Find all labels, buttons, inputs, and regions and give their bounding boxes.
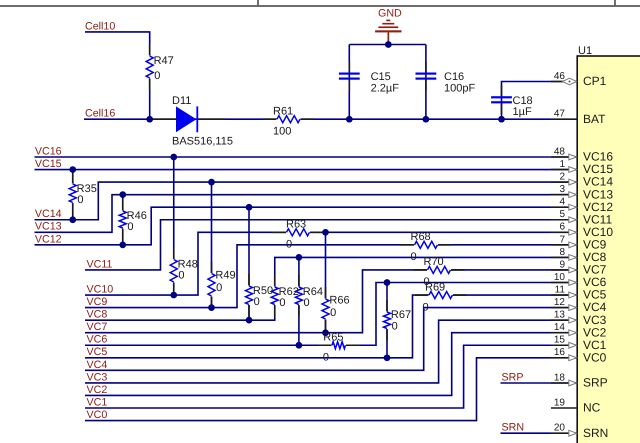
svg-text:VC1: VC1	[87, 396, 108, 408]
svg-text:0: 0	[254, 296, 260, 308]
svg-text:47: 47	[554, 109, 566, 120]
svg-text:R49: R49	[215, 270, 235, 282]
svg-text:Cell10: Cell10	[85, 20, 115, 32]
svg-text:1: 1	[559, 159, 565, 170]
svg-text:15: 15	[554, 335, 566, 346]
svg-text:VC14: VC14	[35, 208, 62, 220]
svg-text:0: 0	[330, 307, 336, 319]
svg-text:VC3: VC3	[87, 371, 108, 383]
svg-text:VC4: VC4	[87, 359, 108, 371]
svg-text:SRP: SRP	[502, 371, 524, 383]
svg-text:SRN: SRN	[583, 426, 608, 440]
svg-text:BAT: BAT	[583, 112, 606, 126]
svg-text:VC7: VC7	[87, 321, 108, 333]
svg-text:16: 16	[554, 347, 566, 358]
svg-text:13: 13	[554, 310, 566, 321]
svg-text:14: 14	[554, 322, 566, 333]
svg-text:VC0: VC0	[87, 409, 108, 421]
svg-text:0: 0	[279, 297, 285, 309]
svg-text:R68: R68	[411, 231, 431, 243]
svg-text:1µF: 1µF	[513, 106, 532, 118]
svg-text:C18: C18	[513, 95, 533, 107]
svg-text:10: 10	[554, 272, 566, 283]
svg-text:8: 8	[559, 247, 565, 258]
svg-text:SRP: SRP	[583, 376, 608, 390]
svg-text:12: 12	[554, 297, 566, 308]
svg-text:0: 0	[77, 194, 83, 206]
svg-text:0: 0	[392, 321, 398, 333]
svg-text:U1: U1	[578, 45, 592, 57]
svg-text:VC15: VC15	[35, 158, 62, 170]
svg-text:9: 9	[559, 259, 565, 270]
svg-text:0: 0	[304, 297, 310, 309]
svg-text:R66: R66	[329, 295, 349, 307]
svg-text:NC: NC	[583, 401, 601, 415]
svg-text:0: 0	[154, 70, 160, 82]
svg-text:C15: C15	[371, 71, 391, 83]
svg-text:46: 46	[554, 71, 566, 82]
svg-text:19: 19	[554, 397, 566, 408]
svg-text:0: 0	[127, 221, 133, 233]
svg-text:0: 0	[286, 239, 292, 251]
svg-text:2.2µF: 2.2µF	[371, 82, 400, 94]
svg-text:5: 5	[559, 209, 565, 220]
svg-text:100: 100	[273, 125, 291, 137]
svg-text:VC9: VC9	[87, 296, 108, 308]
svg-text:BAS516,115: BAS516,115	[172, 135, 233, 147]
svg-text:R69: R69	[425, 281, 445, 293]
svg-text:D11: D11	[172, 95, 191, 107]
svg-text:0: 0	[411, 251, 417, 263]
svg-text:VC5: VC5	[87, 346, 108, 358]
svg-text:VC2: VC2	[87, 384, 108, 396]
svg-text:0: 0	[216, 282, 222, 294]
svg-text:0: 0	[178, 270, 184, 282]
svg-text:VC0: VC0	[583, 350, 607, 364]
svg-text:11: 11	[555, 284, 566, 295]
svg-text:R70: R70	[424, 256, 444, 268]
svg-text:R63: R63	[286, 219, 306, 231]
svg-text:VC8: VC8	[87, 309, 108, 321]
svg-text:VC13: VC13	[35, 221, 62, 233]
svg-text:4: 4	[559, 197, 565, 208]
svg-text:20: 20	[554, 423, 566, 434]
svg-text:2: 2	[559, 172, 565, 183]
svg-text:0: 0	[323, 351, 329, 363]
svg-text:VC12: VC12	[35, 233, 62, 245]
svg-text:CP1: CP1	[583, 74, 607, 88]
svg-text:C16: C16	[444, 71, 464, 83]
svg-text:VC16: VC16	[35, 145, 62, 157]
svg-text:R61: R61	[273, 105, 293, 117]
svg-text:0: 0	[423, 301, 429, 313]
svg-text:SRN: SRN	[502, 422, 525, 434]
svg-text:VC6: VC6	[87, 334, 108, 346]
svg-text:3: 3	[559, 184, 565, 195]
svg-text:R65: R65	[323, 331, 343, 343]
svg-text:R67: R67	[391, 309, 411, 321]
svg-text:Cell16: Cell16	[85, 108, 115, 120]
svg-text:6: 6	[559, 222, 565, 233]
svg-text:100pF: 100pF	[444, 82, 475, 94]
svg-text:48: 48	[554, 146, 566, 157]
svg-text:18: 18	[554, 372, 566, 383]
svg-text:7: 7	[559, 234, 565, 245]
svg-text:R47: R47	[154, 55, 174, 67]
svg-text:VC10: VC10	[87, 283, 114, 295]
svg-text:VC11: VC11	[87, 258, 113, 270]
svg-text:GND: GND	[378, 8, 402, 20]
